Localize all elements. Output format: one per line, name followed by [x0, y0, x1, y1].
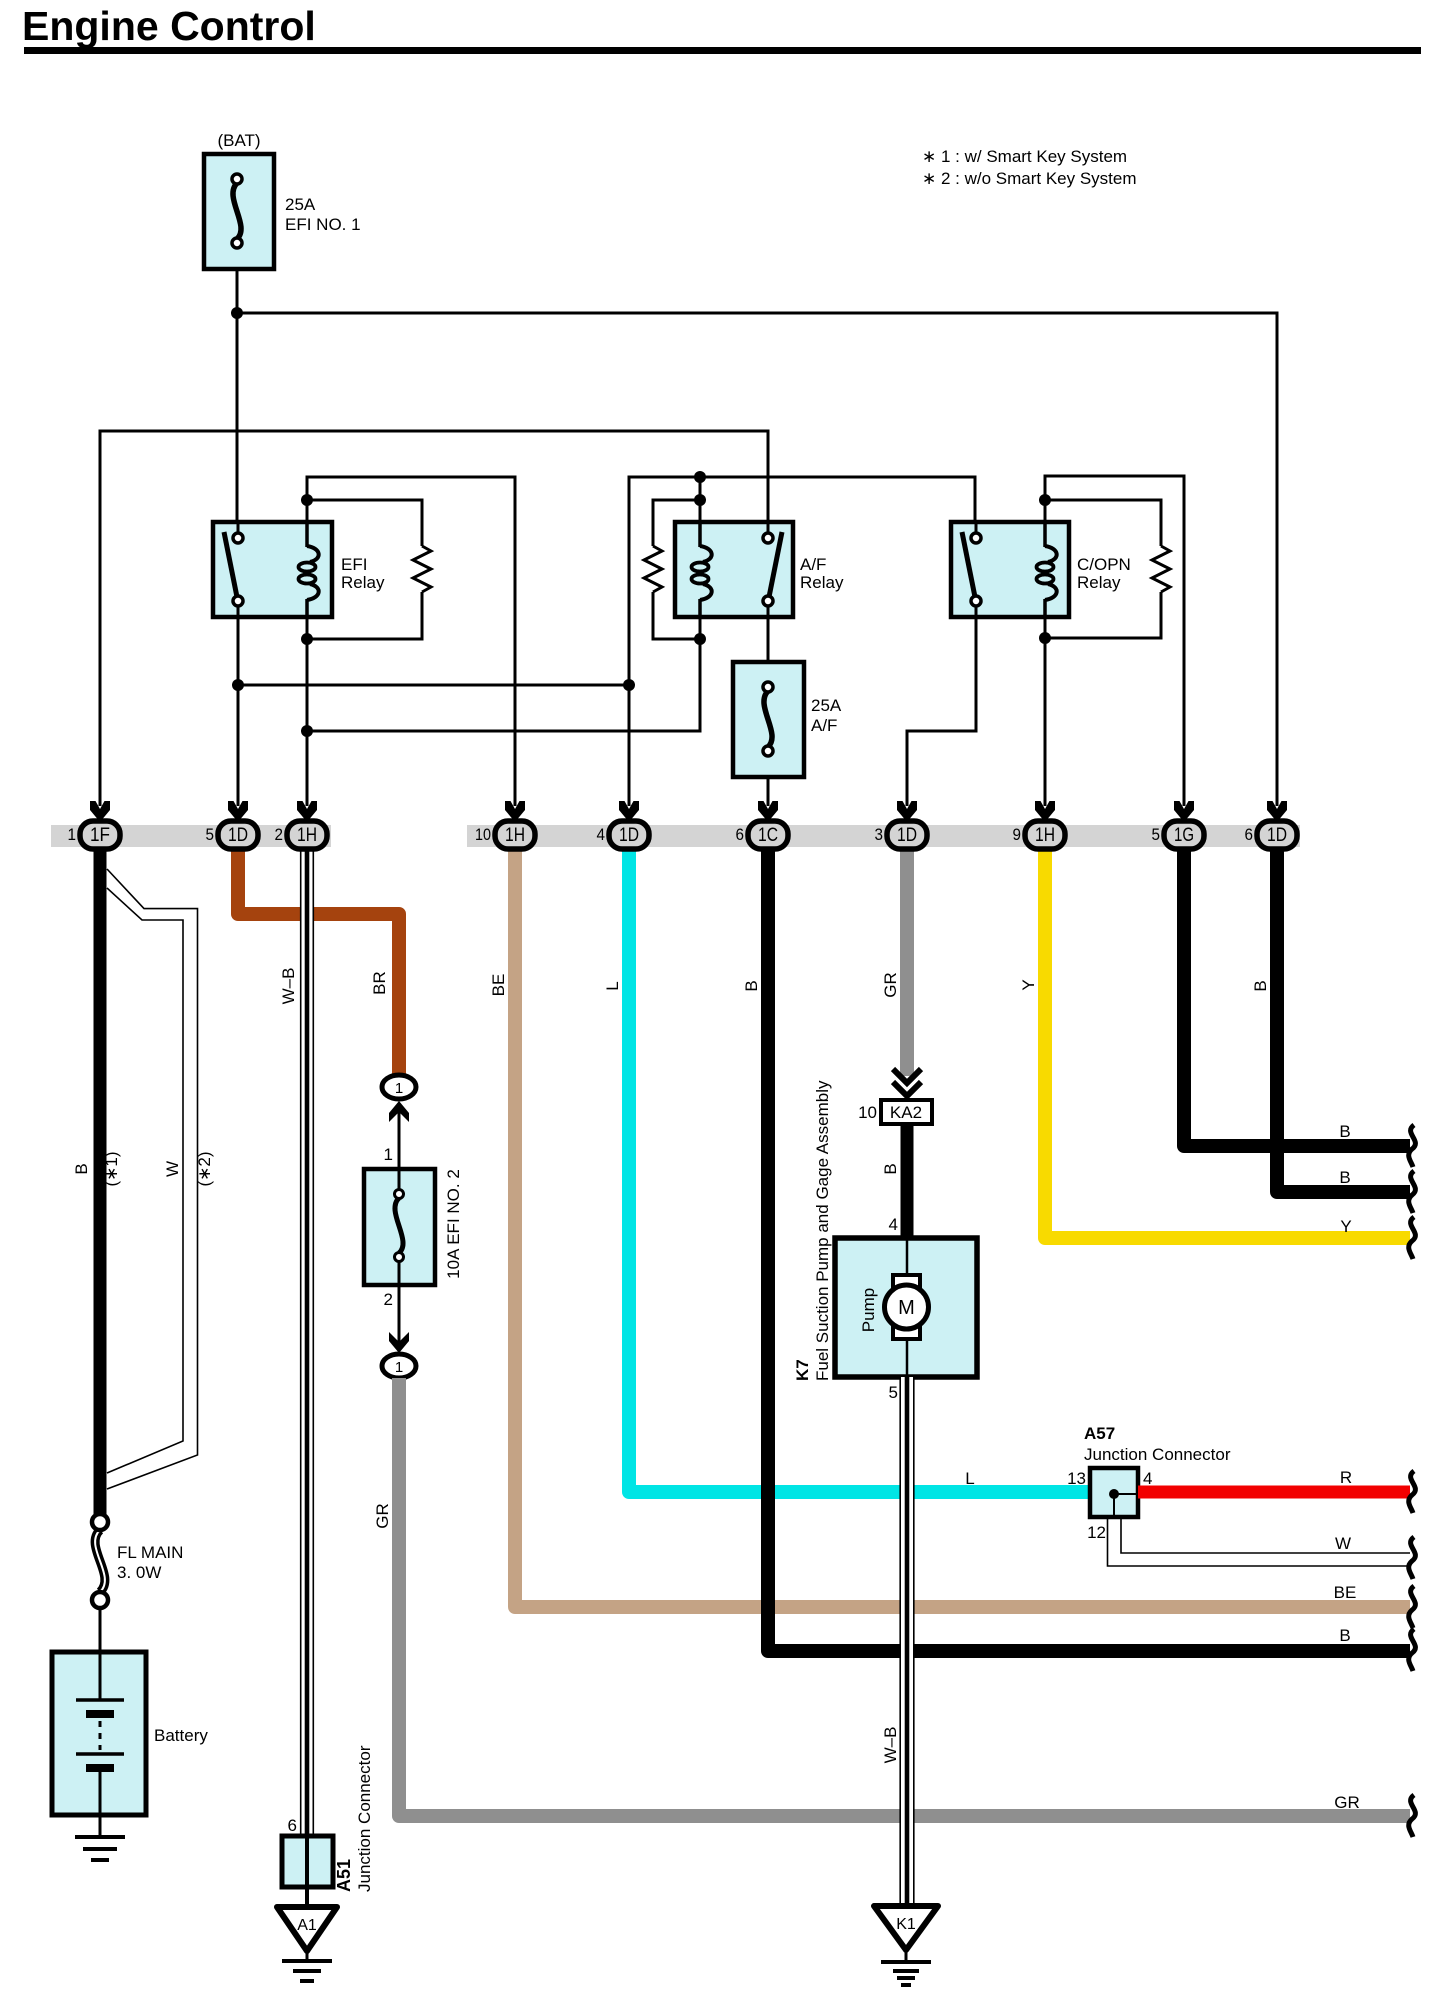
svg-text:Y: Y — [1019, 979, 1038, 990]
svg-text:BE: BE — [1334, 1583, 1357, 1602]
wire junction to fuse pin 1 — [398, 1110, 401, 1169]
svg-text:A1: A1 — [297, 1917, 317, 1934]
wire W from A57 pin 12 to right edge (white outline) — [1108, 1517, 1411, 1566]
junction dot A/F resistor top — [694, 494, 706, 506]
svg-text:10: 10 — [858, 1103, 877, 1122]
connector 3 1D — [875, 801, 928, 849]
svg-text:10A EFI NO. 2: 10A EFI NO. 2 — [444, 1169, 463, 1279]
wire A/F switch bottom to fuse 25A A/F — [767, 617, 770, 662]
svg-text:A51: A51 — [334, 1859, 354, 1892]
fuel pump K7 box — [835, 1238, 977, 1377]
wire EFI resistor top — [307, 500, 422, 546]
svg-text:1D: 1D — [897, 825, 917, 846]
svg-text:1D: 1D — [619, 825, 639, 846]
svg-text:1D: 1D — [228, 825, 248, 846]
junction dot EFI resistor bottom — [301, 633, 313, 645]
connector 6 1C — [736, 801, 789, 849]
svg-text:KA2: KA2 — [890, 1103, 922, 1122]
junction connector A57 — [1067, 1424, 1231, 1542]
wire EFI resistor bottom — [307, 592, 422, 639]
svg-text:1H: 1H — [505, 825, 525, 846]
wire bus y=477 A/F segment from 1D-4 to C/OPN switch — [629, 477, 975, 806]
svg-text:Engine Control: Engine Control — [22, 3, 316, 49]
wire B (*1) from 1F to FL MAIN — [94, 847, 107, 1515]
svg-text:5: 5 — [889, 1383, 898, 1402]
A/F relay box — [675, 522, 844, 617]
svg-text:C/OPN: C/OPN — [1077, 555, 1131, 574]
wire break R — [1409, 1471, 1416, 1513]
resistor A/F — [644, 546, 662, 592]
wire break B (1G) — [1409, 1125, 1416, 1167]
connector 9 1H — [1013, 801, 1066, 849]
svg-text:1H: 1H — [297, 825, 317, 846]
wire A/F resistor top — [653, 500, 700, 546]
svg-text:K7: K7 — [793, 1359, 812, 1381]
wire break BE — [1409, 1586, 1416, 1628]
wire A51 to A1 ground — [305, 1887, 309, 1907]
svg-text:(∗2): (∗2) — [195, 1151, 214, 1186]
EFI relay box — [213, 522, 385, 617]
wire R from A57 to right edge — [1138, 1486, 1410, 1499]
svg-text:Fuel Suction Pump and Gage Ass: Fuel Suction Pump and Gage Assembly — [813, 1080, 832, 1381]
junction dot A/F coil top — [694, 471, 706, 483]
battery ground — [75, 1815, 125, 1860]
svg-text:A57: A57 — [1084, 1424, 1115, 1443]
svg-text:5: 5 — [1152, 825, 1161, 844]
svg-text:13: 13 — [1067, 1469, 1086, 1488]
svg-text:M: M — [898, 1297, 915, 1319]
wire from fuse to EFI relay switch — [236, 269, 239, 522]
junction dot EFI resistor top — [301, 494, 313, 506]
svg-text:Junction Connector: Junction Connector — [355, 1745, 374, 1892]
wire y=731 EFI coil to A/F coil bottom — [307, 617, 700, 731]
svg-text:Junction Connector: Junction Connector — [1084, 1445, 1231, 1464]
label K7 Fuel Suction Pump and Gage Assembly — [793, 1080, 832, 1381]
wire W-B from 2 1H to A51 — [300, 847, 314, 1836]
svg-text:K1: K1 — [896, 1916, 916, 1933]
svg-text:Pump: Pump — [859, 1288, 878, 1332]
connector 10 1H — [475, 801, 535, 849]
ground K1 — [874, 1906, 938, 1985]
wire EFI switch bottom to 5 1D — [237, 617, 240, 806]
svg-text:B: B — [1339, 1626, 1350, 1645]
junction connector A51 — [282, 1745, 374, 1892]
wire BE from 10 1H to right edge — [515, 847, 1410, 1607]
svg-text:Relay: Relay — [1077, 573, 1121, 592]
wire break W — [1409, 1537, 1416, 1579]
wire break B (1C) — [1409, 1629, 1416, 1671]
svg-text:EFI: EFI — [341, 555, 367, 574]
C/OPN relay switch — [962, 522, 981, 617]
svg-text:1G: 1G — [1174, 825, 1194, 846]
wire W-B from pump to K1 ground — [900, 1377, 915, 1906]
C/OPN relay coil — [1037, 522, 1057, 617]
arrow down into junction 1 (bottom) — [389, 1332, 409, 1353]
svg-text:W: W — [163, 1161, 182, 1177]
svg-text:4: 4 — [1143, 1469, 1152, 1488]
label B (*1) W (*2) — [72, 1151, 214, 1186]
wire GR from 3 1D to KA2 — [900, 847, 914, 1076]
svg-text:10: 10 — [475, 825, 491, 844]
junction dot A/F coil bottom — [694, 633, 706, 645]
svg-text:25A: 25A — [811, 696, 842, 715]
svg-text:∗ 2 : w/o Smart Key System: ∗ 2 : w/o Smart Key System — [922, 169, 1137, 188]
wire break Y — [1409, 1217, 1416, 1259]
svg-text:25A: 25A — [285, 195, 316, 214]
A/F relay switch — [763, 522, 782, 617]
wire FL MAIN to battery — [99, 1608, 102, 1652]
A/F relay coil — [692, 522, 712, 617]
wire y=685 EFI switch to 1D-4 drop — [238, 684, 629, 687]
svg-text:Relay: Relay — [800, 573, 844, 592]
wire L from 4 1D to A57 — [629, 847, 1090, 1492]
wire bus y=313 to right connector 6 1D — [237, 313, 1277, 806]
svg-text:W–B: W–B — [881, 1727, 900, 1764]
svg-text:1H: 1H — [1035, 825, 1055, 846]
svg-text:W: W — [1335, 1534, 1351, 1553]
svg-text:6: 6 — [288, 1816, 297, 1835]
svg-text:Relay: Relay — [341, 573, 385, 592]
pump motor M — [885, 1275, 929, 1339]
svg-text:B: B — [1339, 1168, 1350, 1187]
junction dot y=685 right — [623, 679, 635, 691]
wire break GR — [1409, 1795, 1416, 1837]
title Engine Control — [22, 3, 1421, 54]
wire C/OPN coil top to 5 1G — [1045, 476, 1184, 806]
junction dot C/OPN coil bottom — [1039, 632, 1051, 644]
svg-text:L: L — [965, 1469, 974, 1488]
connector 2 1H — [275, 801, 328, 849]
svg-text:FL MAIN: FL MAIN — [117, 1543, 183, 1562]
svg-text:1: 1 — [395, 1359, 403, 1376]
connector junction 1 (top) — [382, 1075, 416, 1099]
connector band (gray) — [51, 825, 1300, 847]
svg-text:2: 2 — [275, 825, 284, 844]
svg-text:R: R — [1340, 1468, 1352, 1487]
wire EFI coil top bus to 10 1H — [307, 477, 515, 806]
connector 1 1F — [68, 801, 121, 849]
EFI relay switch — [224, 522, 243, 617]
svg-text:4: 4 — [597, 825, 606, 844]
svg-text:12: 12 — [1087, 1523, 1106, 1542]
battery — [52, 1652, 208, 1815]
svg-text:6: 6 — [736, 825, 745, 844]
svg-text:1C: 1C — [758, 825, 778, 846]
ground A1 — [277, 1907, 337, 1981]
wire A/F coil top to bus — [699, 477, 702, 522]
svg-text:B: B — [881, 1163, 900, 1174]
svg-text:2: 2 — [384, 1290, 393, 1309]
svg-text:1D: 1D — [1267, 825, 1287, 846]
EFI relay coil — [299, 522, 319, 617]
svg-text:9: 9 — [1013, 825, 1022, 844]
svg-text:A/F: A/F — [800, 555, 826, 574]
svg-text:1F: 1F — [90, 825, 110, 846]
svg-text:6: 6 — [1245, 825, 1254, 844]
connector 5 1G — [1152, 801, 1205, 849]
arrow double chevron into KA2 — [893, 1069, 921, 1096]
connector 4 1D — [597, 801, 650, 849]
svg-text:B: B — [72, 1163, 91, 1174]
junction dot C/OPN resistor top — [1039, 494, 1051, 506]
wire bus y=431 from 1F to A/F relay switch — [100, 431, 768, 806]
svg-text:B: B — [1251, 980, 1270, 991]
svg-text:3. 0W: 3. 0W — [117, 1563, 161, 1582]
svg-text:W–B: W–B — [279, 968, 298, 1005]
wire BR from 5 1D to junction 1 — [238, 847, 399, 1076]
svg-text:Y: Y — [1340, 1217, 1351, 1236]
svg-text:5: 5 — [206, 825, 215, 844]
svg-text:GR: GR — [1334, 1793, 1360, 1812]
wire break B (1D-6) — [1409, 1171, 1416, 1213]
svg-text:Battery: Battery — [154, 1726, 208, 1745]
svg-text:BE: BE — [489, 974, 508, 997]
wire B from 6 1D to right edge — [1277, 847, 1410, 1192]
svg-text:(BAT): (BAT) — [217, 131, 260, 150]
svg-text:4: 4 — [889, 1215, 898, 1234]
wire W (*2) alternative (white outline) — [107, 869, 198, 1489]
junction dot y=685 left — [232, 679, 244, 691]
wire C/OPN coil bottom to 9 1H — [1044, 617, 1047, 806]
wire C/OPN resistor top — [1045, 500, 1161, 546]
fusible link FL MAIN 3.0W — [92, 1514, 183, 1608]
note smart key system — [922, 147, 1137, 188]
svg-text:EFI NO. 1: EFI NO. 1 — [285, 215, 361, 234]
resistor C/OPN — [1152, 546, 1170, 592]
wire A/F resistor bottom — [653, 592, 700, 639]
connector 5 1D — [206, 801, 259, 849]
wire fuse 25A A/F to 6 1C — [767, 777, 770, 806]
svg-text:1: 1 — [395, 1080, 403, 1097]
wire C/OPN resistor bottom — [1045, 592, 1161, 638]
svg-text:L: L — [603, 981, 622, 990]
wire Y from 9 1H to right edge — [1045, 847, 1410, 1238]
svg-text:GR: GR — [881, 972, 900, 998]
wire fuse pin 2 to junction 1 — [398, 1285, 401, 1348]
junction dot at fuse branch — [231, 307, 243, 319]
wire B from 6 1C to right edge — [768, 847, 1410, 1651]
fuse 25A EFI NO. 1 (BAT) — [204, 131, 361, 269]
arrow up into junction 1 — [389, 1101, 409, 1122]
svg-text:A/F: A/F — [811, 716, 837, 735]
svg-text:1: 1 — [384, 1145, 393, 1164]
svg-text:GR: GR — [373, 1503, 392, 1529]
junction dot y=731 — [301, 725, 313, 737]
fuse 25A A/F — [733, 662, 842, 777]
svg-text:BR: BR — [370, 971, 389, 995]
wire GR from junction to right edge — [399, 1378, 1410, 1816]
resistor EFI — [413, 546, 431, 592]
wire B from 5 1G to right edge — [1184, 847, 1410, 1146]
svg-text:B: B — [1339, 1122, 1350, 1141]
wire C/OPN switch bottom to 3 1D — [907, 617, 976, 806]
svg-text:3: 3 — [875, 825, 884, 844]
fuse 10A EFI NO. 2 — [364, 1169, 463, 1285]
C/OPN relay box — [951, 522, 1131, 617]
svg-text:1: 1 — [68, 825, 77, 844]
connector junction 1 (bottom) — [382, 1354, 416, 1378]
svg-text:(∗1): (∗1) — [102, 1151, 121, 1186]
wire B from KA2 to pump — [901, 1124, 914, 1238]
connector 6 1D — [1245, 801, 1298, 849]
svg-text:∗ 1 : w/ Smart Key System: ∗ 1 : w/ Smart Key System — [922, 147, 1127, 166]
svg-text:B: B — [742, 980, 761, 991]
connector KA2 — [858, 1100, 932, 1124]
wire EFI coil bottom to 2 1H — [306, 617, 309, 806]
